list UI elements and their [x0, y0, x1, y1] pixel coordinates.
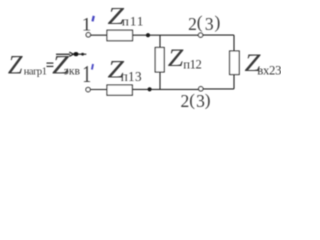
svg-text:): ) [205, 91, 211, 110]
svg-text:3: 3 [196, 91, 205, 111]
svg-text:3: 3 [205, 14, 214, 34]
svg-text:1: 1 [82, 62, 91, 88]
svg-text:2: 2 [188, 14, 197, 34]
svg-text:п13: п13 [121, 69, 142, 84]
svg-text:(: ( [197, 12, 203, 32]
svg-text:(: ( [189, 91, 195, 110]
svg-text:2: 2 [181, 91, 190, 111]
svg-text:вх23: вх23 [257, 64, 281, 78]
svg-text:нагр1: нагр1 [24, 66, 47, 77]
svg-text:п12: п12 [183, 58, 201, 72]
svg-text:Z: Z [168, 45, 185, 72]
svg-text:экв: экв [64, 65, 81, 78]
svg-text:): ) [215, 12, 221, 32]
svg-text:Z: Z [8, 50, 23, 79]
svg-text:1: 1 [82, 14, 92, 35]
svg-text:п11: п11 [122, 14, 144, 29]
